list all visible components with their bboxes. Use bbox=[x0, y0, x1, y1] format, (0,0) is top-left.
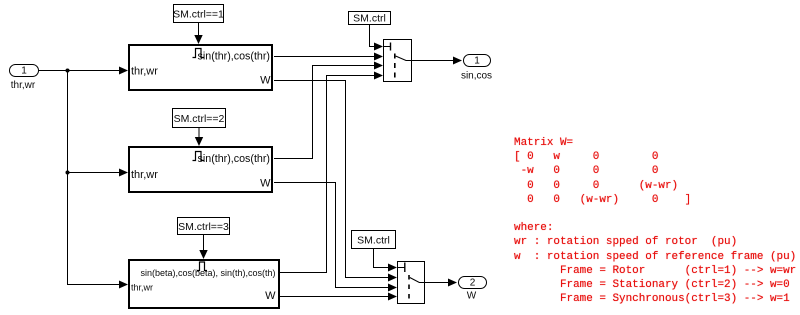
svg-text:SM.ctrl==2: SM.ctrl==2 bbox=[174, 113, 225, 125]
wire block2 W out to switch2 input3 bbox=[274, 183, 397, 292]
svg-text:2: 2 bbox=[470, 278, 476, 289]
svg-text:SM.ctrl: SM.ctrl bbox=[353, 13, 386, 25]
constant SM.ctrl top bbox=[349, 12, 391, 25]
subsystem block2 bbox=[129, 147, 272, 192]
enable pulse symbol block3 bbox=[197, 262, 207, 271]
node junction at x67 y70 bbox=[66, 69, 70, 73]
svg-text:SM.ctrl==3: SM.ctrl==3 bbox=[178, 221, 229, 233]
svg-text:sin(beta),cos(beta), sin(th),c: sin(beta),cos(beta), sin(th),cos(th) bbox=[140, 268, 275, 278]
wire trunk down from junction to block2 and block3 inputs bbox=[68, 71, 129, 289]
wire SM.ctrl==2 to block2 trigger bbox=[195, 128, 203, 146]
wire SM.ctrl==3 to block3 trigger bbox=[199, 235, 207, 260]
svg-text:W: W bbox=[260, 178, 271, 190]
constant SM.ctrl bottom bbox=[352, 231, 396, 249]
constant SM.ctrl==3 bbox=[178, 218, 230, 235]
wire switch1 to outport 1 bbox=[412, 57, 463, 65]
svg-text:SM.ctrl==1: SM.ctrl==1 bbox=[173, 9, 224, 21]
wire block3 out1 to switch1 input4 bbox=[280, 72, 383, 273]
wire inport to block1 input bbox=[39, 67, 128, 75]
wire block1 out1 to switch1 input2 bbox=[274, 53, 383, 61]
wire SM.ctrl==1 to block1 trigger bbox=[194, 23, 202, 45]
svg-text:1: 1 bbox=[474, 56, 480, 67]
svg-text:sin(thr),cos(thr): sin(thr),cos(thr) bbox=[198, 51, 270, 63]
svg-text:sin(thr),cos(thr): sin(thr),cos(thr) bbox=[198, 153, 270, 165]
wire block3 W out to switch2 input4 bbox=[280, 293, 397, 301]
svg-text:W: W bbox=[467, 291, 477, 302]
enable pulse symbol block1 bbox=[193, 49, 205, 58]
svg-text:SM.ctrl: SM.ctrl bbox=[357, 235, 390, 247]
svg-text:thr,wr: thr,wr bbox=[131, 66, 158, 78]
multiport switch U2 bbox=[398, 262, 425, 304]
constant SM.ctrl==1 bbox=[173, 5, 224, 23]
wire switch2 to outport 2 bbox=[425, 279, 458, 287]
svg-text:thr,wr: thr,wr bbox=[131, 169, 158, 181]
svg-text:sin,cos: sin,cos bbox=[461, 71, 492, 82]
subsystem block1 bbox=[129, 45, 272, 90]
wire SM.ctrl to switch1 control input bbox=[370, 25, 384, 51]
constant SM.ctrl==2 bbox=[173, 109, 226, 128]
svg-text:1: 1 bbox=[21, 66, 27, 77]
outport 1 sin,cos bbox=[461, 55, 492, 82]
svg-text:W: W bbox=[265, 290, 276, 302]
wire block1 W out to switch2 input2 bbox=[274, 81, 397, 282]
svg-text:thr,wr: thr,wr bbox=[11, 80, 36, 91]
inport 1 thr,wr bbox=[10, 65, 39, 92]
svg-text:thr,wr: thr,wr bbox=[131, 283, 153, 293]
enable pulse symbol block2 bbox=[193, 152, 205, 161]
subsystem block3 bbox=[129, 260, 279, 308]
wire block2 out1 to switch1 input3 bbox=[274, 62, 383, 159]
node junction at x67 y172 bbox=[66, 171, 70, 175]
wire SM.ctrl to switch2 control input bbox=[374, 249, 398, 272]
multiport switch U1 bbox=[384, 40, 412, 82]
annotation matrix W red text bbox=[514, 136, 796, 306]
svg-text:W: W bbox=[260, 75, 271, 87]
outport 2 W bbox=[459, 277, 487, 302]
wire branch to block2 input bbox=[68, 169, 129, 177]
